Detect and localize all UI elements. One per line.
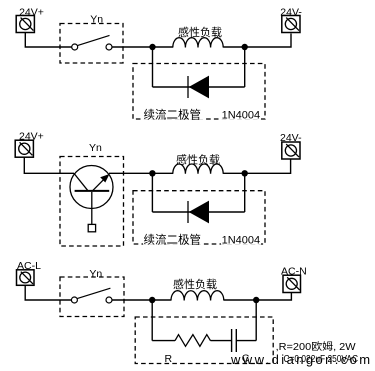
wire inductor to X2	[223, 34, 291, 48]
transistor dashed box Yn	[60, 157, 124, 247]
svg-text:24V-: 24V-	[280, 7, 302, 19]
wire node B down	[244, 47, 246, 87]
wire X5 to switch	[25, 285, 71, 300]
svg-text:AC-L: AC-L	[17, 260, 41, 272]
svg-text:R: R	[165, 353, 173, 365]
label 1N4004 (section 1)	[221, 108, 261, 122]
svg-text:1N4004: 1N4004	[222, 234, 261, 246]
svg-text:24V+: 24V+	[19, 130, 44, 142]
terminal X5 AC-L	[17, 270, 35, 286]
svg-text:C=0.022uF 250VAC: C=0.022uF 250VAC	[284, 354, 359, 365]
svg-text:Yn: Yn	[89, 268, 102, 280]
label R	[162, 353, 173, 366]
switch S2 blade	[77, 288, 110, 298]
node B junction	[242, 44, 248, 50]
wire diode branch (section 2)	[152, 211, 244, 213]
wire node A down	[152, 47, 154, 87]
freewheeling diode dashed box (section 1)	[133, 64, 265, 120]
svg-text:Yn: Yn	[90, 14, 103, 26]
svg-text:24V-: 24V-	[280, 132, 302, 144]
terminal X1 24V+	[16, 16, 34, 33]
wire inductor to X6	[224, 293, 292, 301]
terminal X4 24V-	[282, 142, 300, 159]
svg-text:感性负载: 感性负载	[173, 277, 217, 291]
node C junction	[149, 170, 155, 176]
svg-text:1N4004: 1N4004	[222, 109, 261, 121]
wire X3 to transistor	[24, 157, 74, 173]
capacitor C1	[232, 329, 237, 352]
svg-text:续流二极管: 续流二极管	[144, 108, 202, 122]
freewheeling diode dashed box (section 2)	[133, 191, 265, 244]
wire node E down	[151, 300, 153, 341]
wire resistor to capacitor	[211, 340, 232, 342]
switch S1 blade	[77, 35, 109, 45]
wire node D down	[244, 173, 246, 212]
switch S1 contacts	[72, 44, 112, 50]
node E junction	[149, 297, 155, 303]
svg-text:感性负载: 感性负载	[176, 153, 220, 167]
wire transistor to inductor	[109, 172, 173, 174]
wire capacitor to node F	[236, 340, 256, 342]
svg-text:C: C	[242, 353, 250, 365]
relay contact dashed box Yn	[60, 24, 123, 64]
resistor R1	[175, 335, 211, 347]
label 续流二极管 (section 2)	[143, 233, 203, 247]
diode D1	[188, 76, 209, 99]
inductor L3	[171, 291, 224, 301]
diode D2	[188, 201, 209, 224]
wire switch to inductor (section 3)	[112, 299, 171, 301]
label 1N4004 (section 2)	[221, 233, 261, 247]
terminal X6 AC-N	[283, 275, 301, 292]
label 续流二极管 (section 1)	[143, 108, 203, 122]
svg-text:续流二极管: 续流二极管	[144, 233, 202, 247]
wire switch to inductor	[112, 46, 173, 48]
transistor Q1	[70, 166, 113, 232]
svg-text:,R=200欧姆, 2W: ,R=200欧姆, 2W	[276, 340, 357, 353]
wire X1 to switch	[25, 33, 71, 48]
relay contact dashed box Yn (section 3)	[60, 277, 124, 317]
wire diode branch	[153, 86, 245, 88]
inductor L2	[173, 164, 223, 174]
wire inductor to X4	[223, 160, 290, 174]
terminal X2 24V-	[282, 16, 300, 33]
snubber dashed box	[135, 317, 273, 364]
wire node F down	[255, 300, 257, 341]
node D junction	[242, 170, 248, 176]
svg-text:感性负载: 感性负载	[178, 25, 222, 39]
svg-text:24V+: 24V+	[19, 7, 44, 19]
inductor L1	[173, 38, 223, 48]
wire node E to resistor	[152, 340, 175, 342]
node A junction	[149, 44, 155, 50]
wire node C down	[151, 173, 153, 212]
svg-text:Yn: Yn	[89, 142, 102, 154]
terminal X3 24V+	[15, 140, 33, 157]
switch S2 contacts	[71, 297, 112, 303]
node F junction	[253, 297, 259, 303]
svg-text:AC-N: AC-N	[281, 265, 307, 277]
